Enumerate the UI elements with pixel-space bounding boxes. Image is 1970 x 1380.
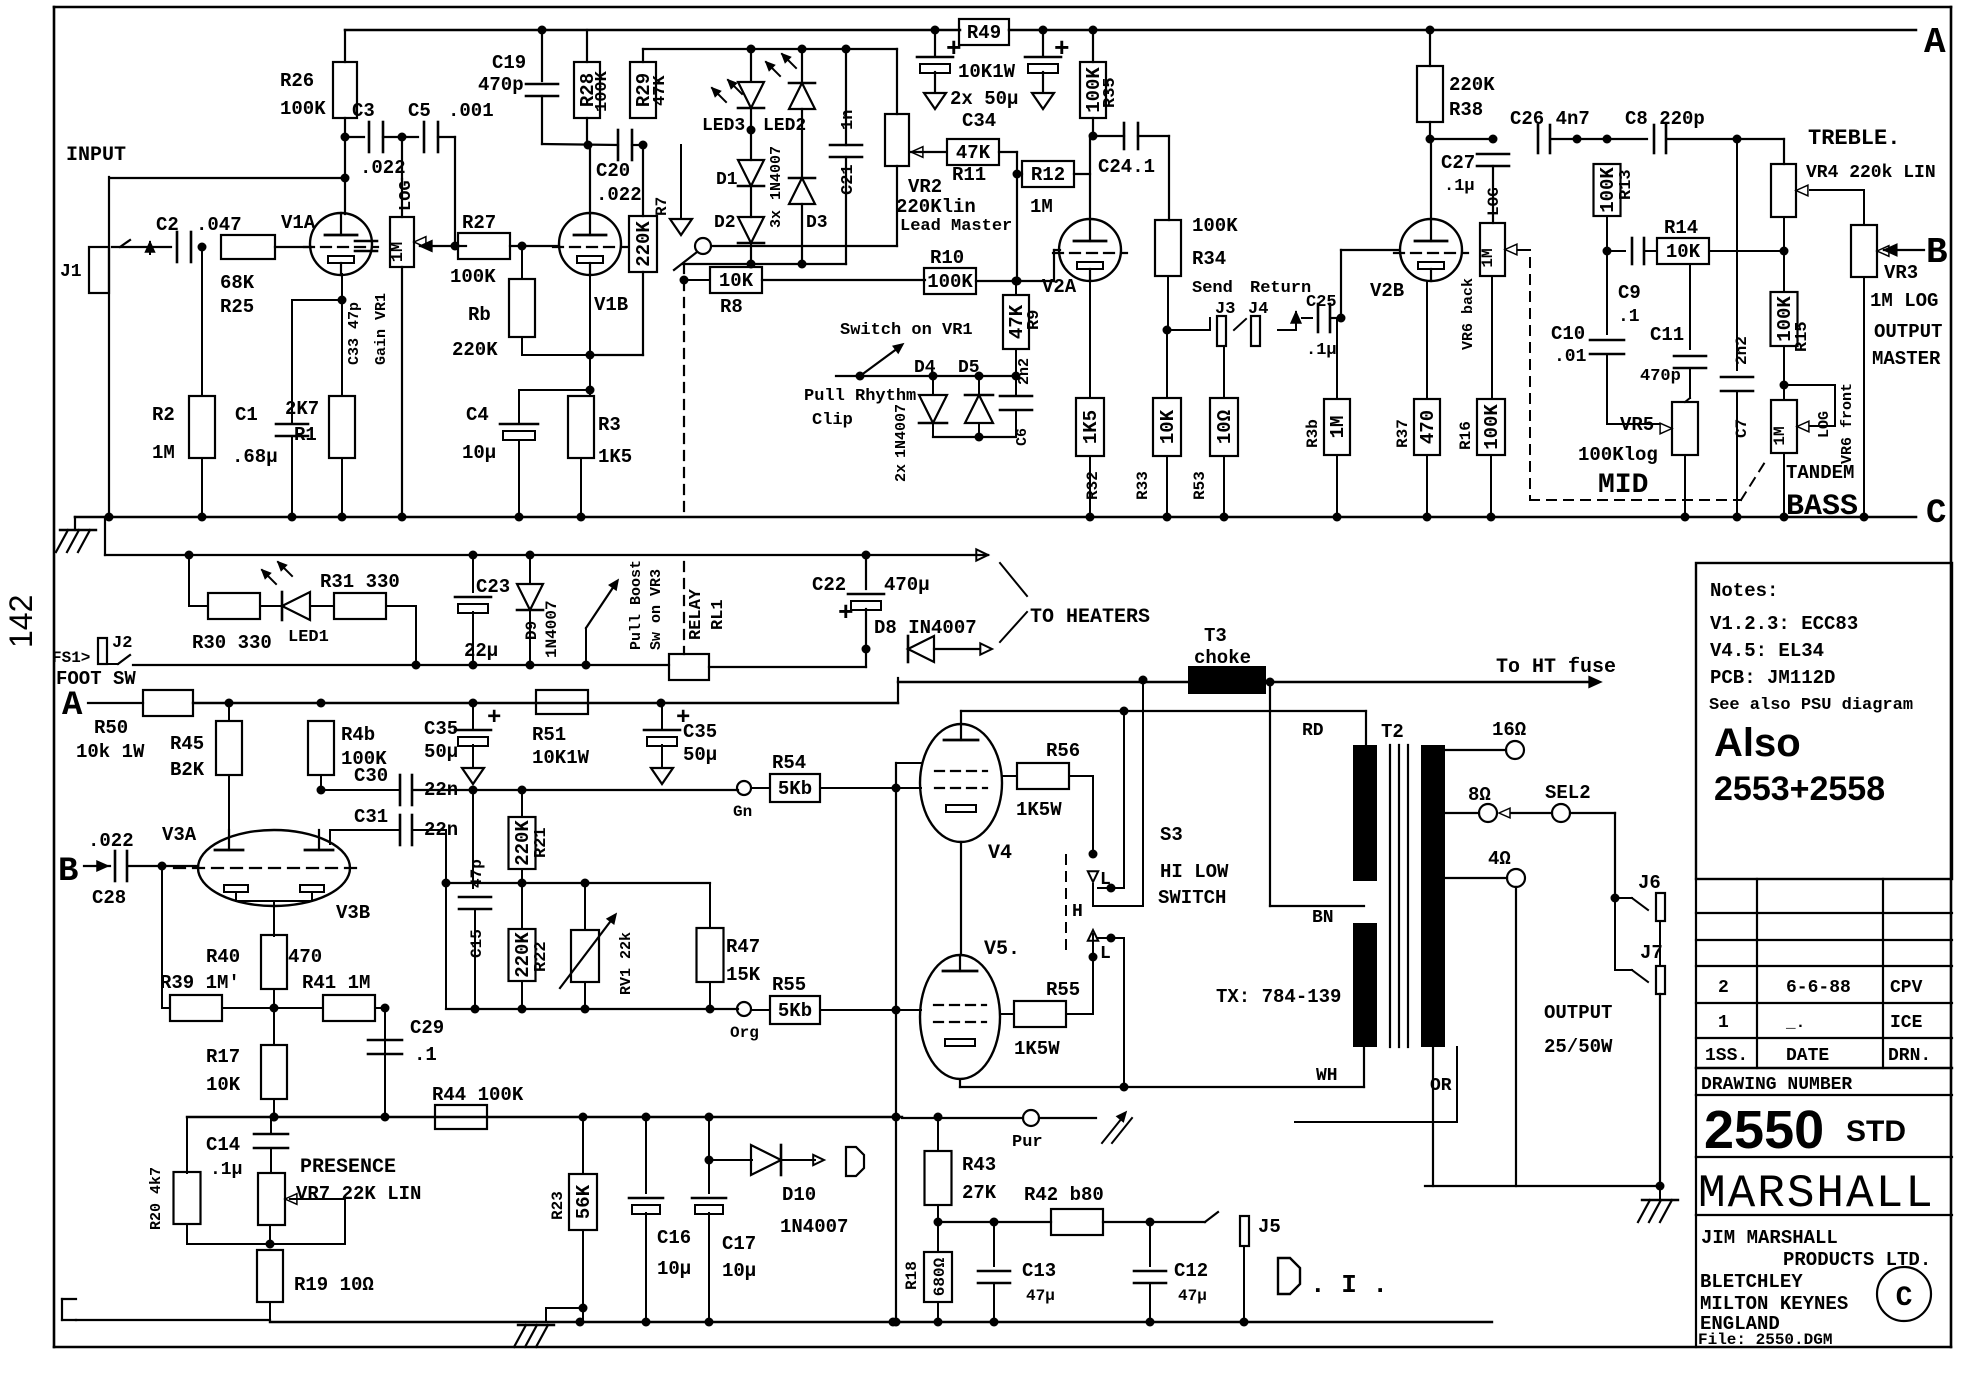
svg-text:Rb: Rb (468, 304, 491, 326)
svg-text:100K: 100K (1481, 404, 1503, 450)
svg-text:A: A (1924, 22, 1946, 63)
svg-text:TREBLE.: TREBLE. (1808, 126, 1900, 151)
svg-text:C26 4n7: C26 4n7 (1510, 108, 1590, 130)
svg-text:Send: Send (1192, 279, 1233, 298)
svg-text:R18: R18 (903, 1261, 921, 1290)
svg-text:Notes:: Notes: (1710, 580, 1778, 602)
svg-text:R50: R50 (94, 717, 128, 739)
svg-text:C24.1: C24.1 (1098, 156, 1155, 178)
svg-text:10K: 10K (719, 270, 754, 292)
svg-text:220K: 220K (1449, 74, 1495, 96)
svg-text:50µ: 50µ (424, 741, 458, 763)
svg-text:R21: R21 (532, 827, 551, 858)
svg-text:Also: Also (1714, 721, 1801, 765)
svg-text:See also PSU diagram: See also PSU diagram (1709, 696, 1913, 715)
svg-text:VR4 220k LIN: VR4 220k LIN (1806, 163, 1936, 183)
svg-text:100Klog: 100Klog (1578, 444, 1658, 466)
svg-text:10K1W: 10K1W (532, 747, 590, 769)
svg-text:RELAY: RELAY (687, 588, 706, 640)
svg-text:15K: 15K (726, 964, 761, 986)
svg-text:R55: R55 (1046, 979, 1080, 1001)
svg-text:OR: OR (1430, 1076, 1452, 1096)
svg-text:S3: S3 (1160, 824, 1183, 846)
svg-text:J4: J4 (1248, 300, 1268, 319)
svg-text:BN: BN (1312, 908, 1334, 928)
svg-text:Lead Master: Lead Master (900, 217, 1012, 236)
svg-text:BASS: BASS (1786, 490, 1858, 524)
svg-text:1N4007: 1N4007 (768, 146, 785, 200)
svg-text:H: H (1072, 902, 1083, 922)
svg-text:R11: R11 (952, 164, 986, 186)
svg-text:R40: R40 (206, 946, 240, 968)
svg-text:R4b: R4b (341, 724, 375, 746)
svg-text:+: + (838, 598, 854, 628)
svg-text:100K: 100K (280, 98, 326, 120)
svg-text:2: 2 (1718, 978, 1729, 998)
svg-text:R7: R7 (653, 197, 671, 216)
svg-text:LOG: LOG (397, 180, 416, 211)
svg-text:10k 1W: 10k 1W (76, 741, 145, 763)
svg-text:R16: R16 (1457, 421, 1475, 450)
svg-text:220K: 220K (452, 339, 498, 361)
svg-text:27K: 27K (962, 1182, 997, 1204)
svg-text:R14: R14 (1664, 217, 1698, 239)
svg-text:.022: .022 (360, 157, 406, 179)
svg-text:1K5: 1K5 (1080, 410, 1102, 444)
svg-text:1M: 1M (1327, 416, 1349, 439)
svg-text:R45: R45 (170, 733, 204, 755)
svg-text:C33 47p: C33 47p (346, 302, 363, 365)
svg-text:Org: Org (730, 1024, 759, 1042)
svg-text:LED2: LED2 (763, 116, 806, 136)
svg-text:VR6 back: VR6 back (1460, 278, 1477, 350)
svg-text:470µ: 470µ (884, 574, 930, 596)
svg-text:C1: C1 (235, 404, 258, 426)
svg-text:D8 IN4007: D8 IN4007 (874, 617, 977, 639)
svg-text:6-6-88: 6-6-88 (1786, 978, 1851, 998)
svg-text:.1µ: .1µ (1444, 177, 1475, 196)
svg-text:1n: 1n (839, 110, 858, 130)
svg-text:470: 470 (288, 946, 322, 968)
svg-text:Pull Rhythm: Pull Rhythm (804, 387, 916, 406)
svg-text:R26: R26 (280, 70, 314, 92)
svg-text:R55: R55 (772, 974, 806, 996)
svg-text:+: + (1054, 34, 1070, 64)
svg-text:5Kb: 5Kb (778, 778, 812, 800)
svg-text:JIM MARSHALL: JIM MARSHALL (1701, 1227, 1838, 1249)
svg-text:R20 4k7: R20 4k7 (148, 1167, 165, 1230)
svg-text:8Ω: 8Ω (1468, 784, 1491, 806)
svg-text:1N4007: 1N4007 (780, 1216, 848, 1238)
svg-text:+: + (487, 705, 501, 732)
svg-text:D2: D2 (714, 213, 736, 233)
svg-text:C30: C30 (354, 765, 388, 787)
svg-text:68K: 68K (220, 272, 255, 294)
svg-text:C12: C12 (1174, 1260, 1208, 1282)
svg-text:C23: C23 (476, 576, 510, 598)
svg-text:FS1>: FS1> (52, 649, 90, 667)
svg-text:C27: C27 (1441, 152, 1475, 174)
svg-text:2K7: 2K7 (285, 398, 319, 420)
svg-text:C6: C6 (1014, 428, 1031, 446)
svg-text:10µ: 10µ (722, 1260, 756, 1282)
svg-text:2553+2558: 2553+2558 (1714, 770, 1885, 808)
svg-text:R3b: R3b (1304, 419, 1322, 448)
svg-text:R56: R56 (1046, 740, 1080, 762)
svg-text:Clip: Clip (812, 411, 853, 430)
svg-text:WH: WH (1316, 1066, 1338, 1086)
svg-text:VR7 22K LIN: VR7 22K LIN (296, 1183, 421, 1205)
svg-text:OUTPUT: OUTPUT (1544, 1002, 1612, 1024)
svg-text:R39 1M': R39 1M' (160, 972, 240, 994)
svg-text:MILTON KEYNES: MILTON KEYNES (1700, 1293, 1848, 1315)
svg-text:C: C (1926, 495, 1946, 533)
svg-text:DRN.: DRN. (1888, 1046, 1931, 1066)
svg-text:C2: C2 (156, 214, 179, 236)
svg-text:50µ: 50µ (683, 744, 717, 766)
svg-text:PRESENCE: PRESENCE (300, 1156, 396, 1179)
svg-text:10µ: 10µ (657, 1258, 691, 1280)
svg-text:LED3: LED3 (702, 116, 745, 136)
svg-text:25/50W: 25/50W (1544, 1036, 1613, 1058)
svg-text:1: 1 (1718, 1013, 1729, 1033)
svg-text:10K: 10K (206, 1074, 241, 1096)
svg-text:J2: J2 (112, 634, 132, 653)
svg-text:C10: C10 (1551, 323, 1585, 345)
svg-text:2n2: 2n2 (1016, 358, 1033, 385)
svg-text:680Ω: 680Ω (931, 1257, 949, 1296)
svg-text:.1µ: .1µ (210, 1160, 242, 1180)
svg-text:R35: R35 (1101, 77, 1120, 108)
svg-text:100K: 100K (1597, 167, 1619, 213)
svg-text:C9: C9 (1618, 282, 1641, 304)
svg-text:TO HEATERS: TO HEATERS (1030, 606, 1150, 629)
svg-text:220Klin: 220Klin (896, 196, 976, 218)
svg-text:ICE: ICE (1890, 1013, 1923, 1033)
svg-text:SEL2: SEL2 (1545, 782, 1591, 804)
svg-text:1K5W: 1K5W (1016, 799, 1062, 821)
svg-text:R10: R10 (930, 247, 964, 269)
svg-text:100K: 100K (927, 271, 973, 293)
svg-text:1M: 1M (389, 242, 408, 262)
svg-text:DATE: DATE (1786, 1046, 1829, 1066)
svg-text:LOG: LOG (1485, 187, 1503, 216)
svg-text:To HT fuse: To HT fuse (1496, 656, 1616, 679)
svg-text:C35: C35 (683, 721, 717, 743)
svg-text:10K: 10K (1157, 409, 1179, 444)
svg-text:3x: 3x (768, 210, 785, 228)
svg-text:R34: R34 (1192, 248, 1226, 270)
svg-text:V1B: V1B (594, 294, 628, 316)
svg-text:HI LOW: HI LOW (1160, 861, 1229, 883)
svg-text:.022: .022 (88, 830, 134, 852)
svg-text:MARSHALL: MARSHALL (1698, 1168, 1935, 1220)
svg-text:BLETCHLEY: BLETCHLEY (1700, 1271, 1803, 1293)
svg-text:Return: Return (1250, 279, 1311, 298)
svg-text:R25: R25 (220, 296, 254, 318)
svg-text:C20: C20 (596, 160, 630, 182)
svg-text:1N4007: 1N4007 (893, 404, 910, 458)
svg-text:2n2: 2n2 (1733, 336, 1751, 365)
svg-text:File: 2550.DGM: File: 2550.DGM (1698, 1331, 1832, 1349)
svg-text:.01: .01 (1554, 347, 1587, 367)
svg-text:D10: D10 (782, 1184, 816, 1206)
svg-text:R23: R23 (549, 1191, 567, 1220)
svg-text:.1: .1 (1618, 307, 1640, 327)
svg-text:C35: C35 (424, 718, 458, 740)
svg-text:Switch on VR1: Switch on VR1 (840, 321, 973, 340)
svg-text:. I .: . I . (1310, 1270, 1388, 1300)
svg-text:B2K: B2K (170, 759, 205, 781)
svg-text:R13: R13 (1617, 169, 1636, 200)
svg-text:J3: J3 (1215, 300, 1235, 319)
svg-text:4Ω: 4Ω (1488, 848, 1511, 870)
svg-text:R8: R8 (720, 296, 743, 318)
svg-text:470p: 470p (1640, 367, 1681, 386)
svg-text:A: A (62, 687, 83, 725)
svg-text:D1: D1 (716, 170, 738, 190)
svg-text:J1: J1 (60, 262, 82, 282)
svg-text:RL1: RL1 (709, 599, 728, 630)
svg-text:C11: C11 (1650, 324, 1684, 346)
svg-text:VR5: VR5 (1620, 414, 1654, 436)
svg-text:VR6 front: VR6 front (1839, 383, 1856, 464)
svg-text:R3: R3 (598, 414, 621, 436)
svg-text:R51: R51 (532, 724, 566, 746)
svg-text:LOG: LOG (1816, 411, 1833, 438)
svg-text:C15: C15 (468, 929, 486, 958)
svg-text:VR2: VR2 (908, 176, 942, 198)
svg-text:C14: C14 (206, 1134, 240, 1156)
svg-text:R41 1M: R41 1M (302, 972, 370, 994)
svg-text:T2: T2 (1381, 721, 1404, 743)
svg-text:C16: C16 (657, 1227, 691, 1249)
svg-text:R32: R32 (1084, 471, 1102, 500)
svg-text:56K: 56K (573, 1184, 595, 1219)
svg-text:1M: 1M (1030, 196, 1053, 218)
svg-text:R42 b80: R42 b80 (1024, 1184, 1104, 1206)
svg-text:10K: 10K (1666, 241, 1701, 263)
svg-text:C19: C19 (492, 52, 526, 74)
svg-text:47K: 47K (956, 142, 991, 164)
svg-text:C31: C31 (354, 806, 388, 828)
svg-text:R37: R37 (1394, 419, 1412, 448)
svg-text:1K5W: 1K5W (1014, 1038, 1060, 1060)
svg-text:PCB: JM112D: PCB: JM112D (1710, 667, 1835, 689)
svg-text:Gn: Gn (733, 803, 752, 821)
svg-text:1M: 1M (1479, 248, 1497, 267)
svg-text:R44 100K: R44 100K (432, 1084, 524, 1106)
svg-text:.68µ: .68µ (232, 446, 278, 468)
svg-text:TANDEM: TANDEM (1786, 462, 1854, 484)
svg-text:V1.2.3: ECC83: V1.2.3: ECC83 (1710, 613, 1858, 635)
svg-text:RD: RD (1302, 721, 1324, 741)
svg-text:C8 220p: C8 220p (1625, 108, 1705, 130)
svg-text:J5: J5 (1258, 1216, 1281, 1238)
svg-text:R27: R27 (462, 212, 496, 234)
svg-text:R22: R22 (532, 941, 551, 972)
svg-text:R17: R17 (206, 1046, 240, 1068)
svg-text:J6: J6 (1638, 872, 1661, 894)
svg-text:R19 10Ω: R19 10Ω (294, 1274, 374, 1296)
svg-text:R9: R9 (1025, 310, 1044, 330)
svg-text:C22: C22 (812, 574, 846, 596)
svg-text:V3A: V3A (162, 824, 197, 846)
svg-text:DRAWING NUMBER: DRAWING NUMBER (1701, 1075, 1852, 1095)
svg-text:C29: C29 (410, 1017, 444, 1039)
svg-text:B: B (1926, 232, 1948, 273)
svg-text:MASTER: MASTER (1872, 348, 1941, 370)
svg-text:STD: STD (1846, 1115, 1906, 1148)
svg-text:.022: .022 (596, 184, 642, 206)
svg-text:RV1 22k: RV1 22k (618, 932, 635, 995)
svg-text:LED1: LED1 (288, 628, 329, 647)
svg-text:47µ: 47µ (1178, 1287, 1207, 1305)
svg-text:R12: R12 (1031, 164, 1065, 186)
svg-text:1K5: 1K5 (598, 446, 632, 468)
svg-text:5Kb: 5Kb (778, 1000, 812, 1022)
svg-text:C21: C21 (839, 164, 858, 195)
svg-text:Pull Boost: Pull Boost (628, 560, 645, 650)
svg-text:1N4007: 1N4007 (543, 600, 561, 658)
svg-text:220K: 220K (512, 820, 534, 866)
svg-text:R15: R15 (1793, 321, 1812, 352)
svg-text:C7: C7 (1733, 419, 1751, 438)
svg-text:C13: C13 (1022, 1260, 1056, 1282)
svg-text:D9: D9 (523, 621, 541, 640)
svg-text:100K: 100K (593, 70, 612, 112)
svg-text:R47: R47 (726, 936, 760, 958)
svg-text:220K: 220K (633, 221, 655, 267)
svg-text:C: C (1896, 1283, 1913, 1314)
svg-text:142: 142 (3, 595, 39, 648)
svg-text:1M LOG: 1M LOG (1870, 290, 1938, 312)
svg-text:C5: C5 (408, 100, 431, 122)
svg-text:C25: C25 (1306, 293, 1337, 312)
svg-text:R38: R38 (1449, 99, 1483, 121)
svg-text:V5.: V5. (984, 938, 1020, 961)
svg-text:2x 50µ: 2x 50µ (950, 88, 1018, 110)
svg-text:C34: C34 (962, 110, 996, 132)
svg-text:V2A: V2A (1042, 276, 1077, 298)
svg-text:INPUT: INPUT (66, 144, 126, 167)
svg-text:470: 470 (1417, 410, 1439, 444)
svg-text:1SS.: 1SS. (1705, 1046, 1748, 1066)
svg-text:R43: R43 (962, 1154, 996, 1176)
svg-text:R53: R53 (1191, 471, 1209, 500)
svg-text:10µ: 10µ (462, 442, 496, 464)
svg-text:R49: R49 (967, 22, 1001, 44)
svg-text:1M: 1M (1771, 426, 1789, 445)
svg-text:MID: MID (1598, 470, 1648, 501)
svg-text:CPV: CPV (1890, 978, 1923, 998)
svg-text:Gain VR1: Gain VR1 (373, 293, 390, 365)
svg-text:22µ: 22µ (464, 640, 498, 662)
svg-text:SWITCH: SWITCH (1158, 887, 1226, 909)
svg-text:choke: choke (1194, 647, 1251, 669)
svg-text:100K: 100K (450, 266, 496, 288)
svg-text:C4: C4 (466, 404, 489, 426)
svg-text:470p: 470p (478, 74, 524, 96)
svg-text:C17: C17 (722, 1233, 756, 1255)
svg-text:100K: 100K (1192, 215, 1238, 237)
svg-text:.1µ: .1µ (1306, 341, 1337, 360)
svg-text:OUTPUT: OUTPUT (1874, 321, 1942, 343)
svg-text:R2: R2 (152, 404, 175, 426)
svg-text:10K1W: 10K1W (958, 61, 1016, 83)
svg-text:.047: .047 (196, 214, 242, 236)
svg-text:L: L (1100, 944, 1111, 964)
svg-text:V3B: V3B (336, 902, 370, 924)
svg-text:V2B: V2B (1370, 280, 1404, 302)
svg-text:2x: 2x (893, 464, 910, 482)
svg-text:C3: C3 (352, 100, 375, 122)
svg-text:V4.5: EL34: V4.5: EL34 (1710, 640, 1824, 662)
svg-text:47µ: 47µ (1026, 1287, 1055, 1305)
svg-text:.001: .001 (448, 100, 494, 122)
svg-text:220K: 220K (512, 932, 534, 978)
svg-text:47K: 47K (651, 75, 670, 106)
svg-text:Pur: Pur (1012, 1133, 1043, 1152)
svg-text:1M: 1M (152, 442, 175, 464)
svg-text:Sw on VR3: Sw on VR3 (648, 569, 665, 650)
svg-text:16Ω: 16Ω (1492, 719, 1526, 741)
svg-text:R31 330: R31 330 (320, 571, 400, 593)
svg-text:10Ω: 10Ω (1214, 410, 1236, 444)
svg-text:.1: .1 (414, 1044, 437, 1066)
svg-text:C28: C28 (92, 887, 126, 909)
svg-text:R54: R54 (772, 752, 806, 774)
svg-text:R30 330: R30 330 (192, 632, 272, 654)
svg-text:2550: 2550 (1704, 1100, 1824, 1160)
svg-text:R33: R33 (1134, 471, 1152, 500)
svg-text:TX: 784-139: TX: 784-139 (1216, 986, 1341, 1008)
svg-text:T3: T3 (1204, 625, 1227, 647)
svg-text:V1A: V1A (281, 212, 316, 234)
svg-text:+: + (946, 34, 962, 64)
svg-text:B: B (58, 853, 78, 891)
svg-text:V4: V4 (988, 842, 1012, 865)
svg-text:VR3: VR3 (1884, 262, 1918, 284)
svg-text:D3: D3 (806, 213, 828, 233)
svg-text:_.: _. (1785, 1014, 1805, 1032)
